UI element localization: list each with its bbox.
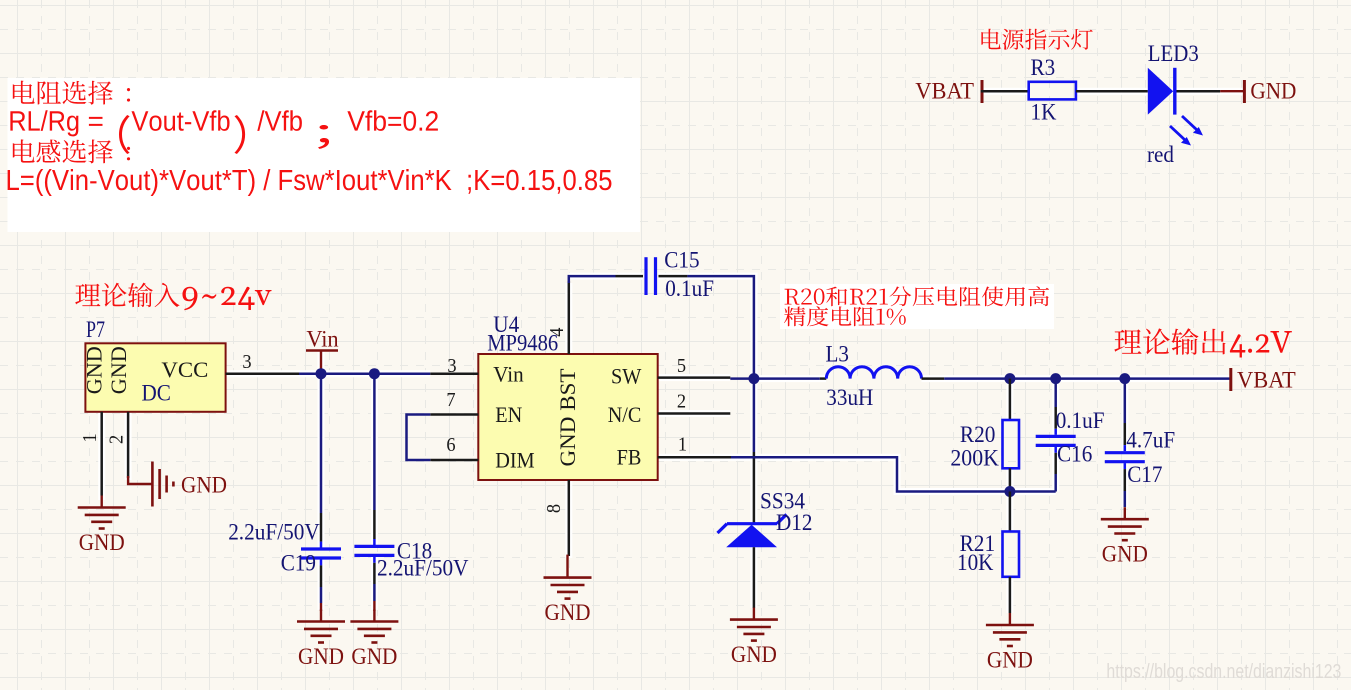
capacitor C15 [646, 257, 656, 295]
resistor R21 [1003, 532, 1020, 577]
power port Vin [306, 327, 339, 374]
annotation text 4.2V [1230, 331, 1292, 358]
annotation text R20和R21分压电阻使用高 [785, 286, 1050, 306]
wire C19 lower [320, 559, 323, 611]
C16 bottom pin [1054, 447, 1057, 492]
power port GND (sideways, P7 pin2) [128, 462, 227, 507]
junction (C17) [1119, 373, 1130, 384]
R20 bottom pin [1009, 468, 1012, 491]
IC U4 MP9486 body [478, 354, 657, 480]
annotation formula RL/Rg [10, 110, 437, 154]
svg-text:red: red [1147, 142, 1174, 167]
svg-text:LED3: LED3 [1148, 41, 1199, 66]
svg-text:GND: GND [106, 346, 131, 394]
ground symbol below R21 [986, 613, 1034, 674]
wire C15 to SW node [687, 276, 754, 379]
svg-text:FB: FB [617, 445, 642, 470]
pin 1 (U4 FB) [658, 456, 731, 459]
svg-text:200K: 200K [950, 446, 999, 471]
svg-text:VCC: VCC [161, 357, 208, 382]
pin 4 (U4 BST, top) [568, 281, 571, 354]
junction (C18) [369, 368, 380, 379]
LED D-LED3 [1148, 68, 1203, 146]
svg-text:4: 4 [546, 328, 568, 337]
resistor R3 [1029, 82, 1076, 100]
svg-text:4.7uF: 4.7uF [1126, 428, 1175, 453]
svg-text:C19: C19 [281, 551, 316, 576]
resistor R20 [1003, 420, 1020, 468]
svg-text:6: 6 [446, 434, 455, 456]
svg-text:10K: 10K [957, 550, 994, 575]
wire C18 upper [373, 374, 376, 545]
R21 top pin [1009, 492, 1012, 532]
svg-text:5: 5 [677, 355, 686, 377]
svg-text:2: 2 [677, 391, 686, 413]
wire halo underlay [102, 91, 1245, 613]
svg-text:C17: C17 [1127, 462, 1162, 487]
capacitor C19 [301, 549, 341, 558]
svg-text:P7: P7 [86, 317, 105, 342]
inductor L3 [820, 367, 945, 379]
D12 top pin [753, 452, 756, 524]
svg-text:C15: C15 [664, 248, 699, 273]
connector P7 [85, 343, 225, 412]
annotation text 电阻选择： [13, 81, 130, 105]
pin 7 (U4 EN) [430, 413, 478, 416]
wire BST to C15 [569, 276, 616, 283]
svg-text:8: 8 [543, 504, 565, 513]
wire VBAT to R3 [981, 90, 1029, 93]
svg-text:VBAT: VBAT [915, 79, 974, 105]
svg-text:GND: GND [79, 530, 125, 556]
wire input rail [299, 372, 430, 375]
R20 top pin [1009, 379, 1012, 420]
svg-text:SW: SW [611, 364, 642, 389]
annotation text 精度电阻1% [784, 306, 906, 326]
junction (Vin/C19) [316, 368, 327, 379]
svg-text:DIM: DIM [495, 448, 534, 473]
pin 3 (U4 Vin) [430, 372, 478, 375]
svg-text:Vin: Vin [493, 362, 523, 387]
svg-text:GND: GND [82, 346, 107, 394]
svg-text:1K: 1K [1031, 100, 1057, 125]
port VBAT (led branch) [915, 79, 982, 105]
svg-text:Vin: Vin [306, 327, 339, 353]
svg-text:D12: D12 [776, 510, 812, 535]
C15 right pin [659, 275, 688, 278]
svg-text:GND: GND [1102, 542, 1148, 568]
wire FB to divider [731, 457, 1056, 491]
junction (SW node) [748, 373, 759, 384]
svg-text:33uH: 33uH [826, 385, 873, 410]
annotation text 9~24v [182, 287, 271, 311]
svg-text:3: 3 [242, 351, 251, 373]
wire SW node to L3 [754, 377, 820, 380]
svg-text:3: 3 [447, 355, 456, 377]
pin 5 (U4 SW) [658, 376, 731, 379]
svg-text:2.2uF/50V: 2.2uF/50V [228, 520, 320, 545]
svg-text:R3: R3 [1031, 55, 1056, 80]
ground symbol below U4 pin8 [544, 555, 592, 627]
junction (R20) [1004, 373, 1015, 384]
svg-text:2: 2 [106, 435, 128, 444]
port GND (led branch) [1220, 79, 1296, 105]
wire C18 lower [373, 557, 376, 611]
pin 6 (U4 DIM) [430, 459, 478, 462]
wire output rail [944, 377, 1231, 380]
svg-text:N/C: N/C [608, 402, 642, 427]
ground symbol below P7 pin1 [78, 496, 126, 557]
port VBAT (output) [1231, 368, 1296, 394]
annotation text 理论输入 [75, 283, 179, 308]
wire EN-DIM loop [407, 415, 431, 461]
ground symbol below C19 [297, 610, 345, 671]
annotation formula L= [8, 169, 612, 196]
svg-text:DC: DC [142, 380, 171, 405]
schottky diode D12 SS34 [718, 514, 787, 547]
C15 left pin [616, 275, 644, 278]
ground symbol below D12 [730, 608, 778, 669]
annotation: formula note box [8, 78, 641, 232]
capacitor C17 [1105, 453, 1145, 462]
svg-text:GND: GND [181, 473, 227, 499]
wire C19 upper [320, 374, 323, 548]
ground symbol below C18 [350, 610, 398, 671]
svg-text:GND: GND [987, 648, 1033, 674]
annotation text 电源指示灯 [981, 29, 1092, 50]
svg-text:GND: GND [731, 642, 777, 668]
svg-text:GND: GND [1250, 79, 1296, 105]
wire SW pin to junction [730, 377, 759, 380]
svg-text:C16: C16 [1057, 442, 1092, 467]
junction (FB node) [1004, 486, 1015, 497]
wire SW node down to D12 [753, 379, 756, 452]
svg-text:7: 7 [446, 389, 455, 411]
svg-text:GND: GND [545, 600, 591, 626]
P7 pin 2 [127, 412, 130, 478]
P7 pin 3 [226, 372, 299, 375]
capacitor C18 [354, 546, 394, 555]
svg-text:https://blog.csdn.net/dianzish: https://blog.csdn.net/dianzishi123 [1106, 661, 1341, 683]
annotation text 理论输出 [1114, 328, 1225, 355]
pin 8 (U4 GND, bottom) [568, 480, 571, 556]
svg-text:L3: L3 [826, 342, 850, 367]
wire R3 to LED3 [1076, 90, 1148, 93]
D12 bottom pin [753, 547, 756, 608]
svg-text:0.1uF: 0.1uF [1056, 408, 1105, 433]
svg-text:1: 1 [678, 434, 687, 456]
pin 2 (U4 N/C) [658, 412, 731, 415]
svg-text:2.2uF/50V: 2.2uF/50V [377, 556, 469, 581]
capacitor C16 [1036, 436, 1076, 445]
svg-text:1: 1 [79, 433, 101, 442]
svg-text:GND: GND [298, 644, 344, 670]
ground symbol below C17 [1101, 507, 1149, 568]
R21 bottom pin [1009, 577, 1012, 613]
P7 pin 1 [100, 412, 103, 496]
svg-text:GND BST: GND BST [555, 368, 580, 467]
junction (C16) [1050, 373, 1061, 384]
svg-text:0.1uF: 0.1uF [665, 276, 714, 301]
svg-text:GND: GND [351, 644, 397, 670]
svg-text:R20: R20 [960, 422, 996, 447]
wire LED3 to GND port [1177, 90, 1221, 93]
annotation text 电感选择： [13, 139, 130, 163]
C17 top pin [1124, 379, 1127, 452]
svg-text:EN: EN [495, 402, 522, 427]
C16 top pin [1054, 379, 1057, 435]
svg-text:VBAT: VBAT [1237, 368, 1296, 394]
annotation note box (R20/R21) [780, 284, 1054, 329]
C17 bottom pin [1124, 463, 1127, 507]
